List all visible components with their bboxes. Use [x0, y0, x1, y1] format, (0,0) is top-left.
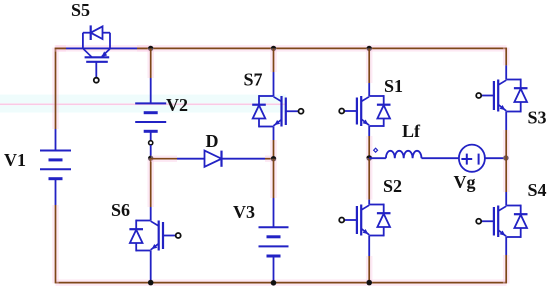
wire inductor Lf to source Vg — [422, 157, 460, 159]
svg-text:D: D — [206, 131, 219, 151]
switch S4 (IGBT with antiparallel diode) — [476, 205, 527, 238]
switch S1 (IGBT with antiparallel diode) — [339, 95, 390, 127]
switch S2 top lead wire — [368, 200, 370, 205]
inductor Lf — [386, 151, 422, 158]
svg-text:S5: S5 — [71, 0, 90, 20]
battery V3 top lead wire — [273, 198, 275, 227]
wire top rail down to S7 — [270, 48, 277, 72]
svg-text:S3: S3 — [528, 108, 547, 128]
wire node D to inductor Lf — [369, 157, 386, 159]
svg-text:Lf: Lf — [402, 121, 421, 141]
AC source Vg — [459, 145, 485, 172]
battery V2 top lead wire — [150, 78, 152, 103]
switch S4 bottom lead wire — [505, 237, 507, 255]
svg-text:S7: S7 — [244, 70, 263, 90]
wire S7 to node C — [270, 140, 277, 159]
switch S5 (horizontal IGBT with antiparallel diode) — [66, 25, 137, 82]
battery V3 bottom lead wire — [273, 256, 275, 283]
wire node B to diode D — [151, 155, 177, 162]
node (top, S7 leg) junction dot — [271, 46, 276, 51]
node A junction dot — [148, 46, 153, 51]
svg-text:S1: S1 — [384, 76, 403, 96]
wire diode D to node C — [265, 155, 274, 162]
wire node C down to V3 — [270, 159, 277, 198]
left rail wire (lower) — [52, 205, 59, 283]
svg-text:V2: V2 — [166, 95, 188, 115]
wire source Vg to right rail node E — [485, 157, 506, 159]
wire node B down to S6 — [147, 158, 154, 207]
wire top rail corner down to S3 — [503, 48, 510, 66]
wire S5 to node A — [137, 45, 151, 52]
bottom node junction dot (S2 leg) — [366, 280, 372, 286]
battery V2 terminal circle — [149, 141, 153, 145]
switch S6 (IGBT with antiparallel diode) — [129, 220, 180, 252]
bottom rail wire — [56, 279, 507, 286]
wire S3 to node E — [503, 130, 510, 158]
switch S7 (IGBT with antiparallel diode) — [252, 95, 303, 127]
battery V3 — [259, 227, 289, 256]
svg-text:S2: S2 — [383, 176, 402, 196]
svg-text:Vg: Vg — [454, 172, 476, 192]
battery V2 — [135, 103, 166, 131]
switch S7 bottom lead wire — [273, 127, 275, 141]
switch S7 top lead wire — [273, 72, 275, 96]
switch S3 (IGBT with antiparallel diode) — [476, 79, 527, 113]
switch S1 top lead wire — [368, 83, 370, 96]
wire S4 to bottom rail corner — [503, 255, 510, 283]
wire node A down to V2 — [147, 48, 154, 78]
switch S3 bottom lead wire — [505, 112, 507, 131]
left rail wire (upper) — [52, 48, 59, 129]
battery V2 bottom lead wire — [150, 131, 152, 140]
jpeg artifact tint bands (decorative) — [0, 95, 286, 104]
node E junction dot — [503, 155, 508, 160]
top rail wire — [56, 45, 507, 52]
battery V1 — [40, 151, 71, 179]
wire top rail down to S1 — [366, 48, 373, 83]
wire node E down to S4 — [503, 158, 510, 192]
svg-text:V1: V1 — [4, 150, 26, 170]
node B junction dot — [148, 156, 153, 161]
node C junction dot — [271, 156, 276, 161]
svg-text:V3: V3 — [233, 202, 255, 222]
wire V2 terminal to node B — [150, 145, 152, 158]
switch S2 bottom lead wire — [368, 236, 370, 257]
switch S3 top lead wire — [505, 65, 507, 79]
wire S2 to bottom rail — [366, 256, 373, 283]
switch S4 top lead wire — [505, 192, 507, 206]
svg-text:S6: S6 — [111, 200, 130, 220]
switch S6 top lead wire — [150, 207, 152, 221]
inductor polarity diamond marker — [374, 148, 378, 152]
wire left rail to S5 — [55, 45, 66, 52]
wire S6 to bottom rail — [150, 251, 152, 283]
switch S2 (IGBT with antiparallel diode) — [339, 204, 390, 237]
diode D — [177, 151, 265, 167]
battery V1 lead wires — [55, 129, 57, 151]
svg-text:S4: S4 — [528, 180, 547, 200]
node (top, S1 leg) junction dot — [367, 46, 372, 51]
wire S1 to node D — [366, 136, 373, 158]
bottom node junction dot (S6 leg) — [148, 280, 154, 286]
node D junction dot — [366, 155, 372, 161]
wire node D down to S2 — [366, 158, 373, 200]
switch S1 bottom lead wire — [368, 126, 370, 136]
bottom node junction dot (V3 leg) — [271, 280, 277, 286]
